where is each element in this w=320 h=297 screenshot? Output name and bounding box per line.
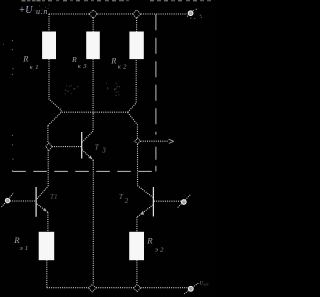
wire T2 base [154,200,181,202]
terminal -U [184,283,198,294]
svg-text:3: 3 [101,147,106,155]
svg-text:э2: э2 [155,247,166,254]
wire bottom rail [47,287,89,289]
resistor Re1 [39,232,55,260]
wire Re1 bottom [46,260,48,288]
dashed link vertical right [12,14,156,171]
node rail-R3 diamond [133,10,141,18]
wire R1 bottom to jog [48,59,61,126]
node T3-base diamond [46,143,52,151]
wire R1 top [48,14,50,32]
node output diamond [135,138,141,144]
resistor Rk3 [86,32,100,60]
wire net-A vertical (T1 collector / T3 base feed) [47,126,49,143]
wire right jog down to T2 collector [128,112,138,138]
svg-text:э1: э1 [20,245,31,252]
transistor T3 [82,131,94,160]
wire T3 emitter vertical [92,160,94,284]
stray scan dots [3,9,202,114]
svg-text:T: T [95,143,100,151]
transistor T2 [137,186,154,218]
svg-text:T1: T1 [50,193,58,201]
terminal +U [187,10,194,17]
svg-text:R: R [71,55,77,64]
svg-text:к3: к3 [78,63,89,70]
svg-text:к1: к1 [30,64,42,71]
resistor Rk1 [42,32,56,60]
svg-text:и.п: и.п [204,283,209,287]
output arrow [169,139,174,143]
wire output line [141,140,168,142]
svg-text:2: 2 [125,197,129,205]
faint page bleed-through dots [65,83,120,96]
svg-text:+U: +U [19,5,34,16]
svg-text:R: R [22,55,28,64]
wire horizontal y112 [62,111,128,113]
resistor Re2 [129,232,144,260]
svg-text:R: R [13,235,20,245]
wire top rail +U [49,13,89,15]
node rail-Re2 diamond [134,284,141,291]
node rail-R2 diamond [89,10,97,18]
dashed link vertical left x12 [11,40,14,171]
svg-text:T: T [119,193,124,201]
wire R2 bottom / T3 collector vertical [92,59,94,131]
wire Re2 bottom [136,260,138,284]
svg-text:и.п: и.п [36,7,48,16]
top edge cropped text remnants [22,0,212,2]
chroma noise near +U label [26,4,49,13]
node rail-T3e diamond [88,284,96,292]
terminal input 1 [2,193,14,208]
wire T1 emitter to Re1 [47,212,49,231]
dashed link horizontal y171 [12,170,156,172]
wire R3 top [136,18,138,32]
wire T2 collector vertical [137,144,139,185]
svg-text:к2: к2 [118,63,129,70]
transistor T1 [36,186,48,217]
wire T2 emitter to Re2 [136,217,138,232]
wire right jog up to R3 [128,59,137,112]
terminal input 2 [178,195,191,208]
resistor Rk2 [129,32,143,60]
junction diamonds [46,10,141,292]
wire R2 top [92,18,94,32]
svg-text:R: R [110,57,116,66]
svg-text:R: R [146,236,153,246]
wire T3 base [52,146,82,148]
wire T1 base [10,200,36,202]
